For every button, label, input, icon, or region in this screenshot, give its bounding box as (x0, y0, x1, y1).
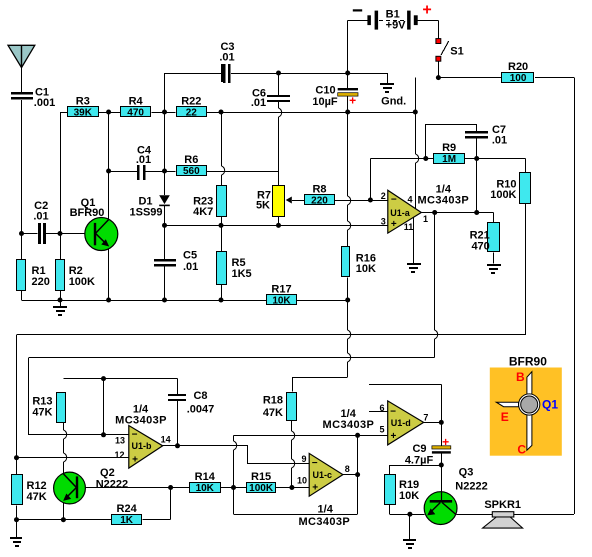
svg-text:7: 7 (423, 413, 428, 423)
svg-text:+9V: +9V (386, 20, 407, 32)
svg-text:BFR90: BFR90 (70, 207, 105, 219)
svg-text:100: 100 (510, 73, 527, 84)
svg-text:U1-c: U1-c (313, 470, 333, 480)
svg-text:39K: 39K (74, 107, 93, 118)
svg-text:R14: R14 (195, 471, 216, 483)
svg-text:11: 11 (404, 222, 414, 232)
svg-text:13: 13 (115, 436, 125, 446)
svg-text:10µF: 10µF (312, 96, 338, 108)
svg-text:R15: R15 (251, 471, 271, 483)
svg-text:+: + (442, 435, 449, 449)
svg-text:10K: 10K (356, 263, 376, 275)
svg-text:R20: R20 (508, 61, 528, 73)
svg-text:220: 220 (311, 195, 328, 206)
svg-text:+: + (312, 483, 318, 494)
svg-text:4.7µF: 4.7µF (405, 455, 434, 467)
svg-text:R4: R4 (129, 96, 144, 108)
svg-text:Q2: Q2 (100, 467, 115, 479)
svg-text:.01: .01 (492, 135, 507, 147)
svg-text:Q1: Q1 (542, 398, 558, 412)
svg-text:+: + (391, 219, 397, 230)
svg-text:14: 14 (161, 435, 171, 445)
svg-text:N2222: N2222 (96, 479, 128, 491)
svg-text:470: 470 (127, 107, 144, 118)
svg-text:1M: 1M (442, 154, 456, 165)
svg-text:4K7: 4K7 (193, 206, 213, 218)
svg-text:N2222: N2222 (455, 481, 487, 493)
svg-text:.001: .001 (34, 97, 55, 109)
svg-text:MC3403P: MC3403P (115, 414, 167, 426)
svg-text:1K5: 1K5 (232, 268, 252, 280)
svg-text:+: + (390, 431, 396, 442)
svg-text:Q3: Q3 (459, 467, 474, 479)
svg-text:100K: 100K (69, 276, 95, 288)
svg-text:47K: 47K (32, 407, 52, 419)
svg-text:.01: .01 (251, 97, 266, 109)
svg-text:BFR90: BFR90 (509, 354, 547, 368)
svg-text:R6: R6 (184, 154, 198, 166)
svg-text:1/4: 1/4 (318, 504, 334, 516)
svg-text:MC3403P: MC3403P (298, 516, 350, 528)
svg-text:100K: 100K (490, 189, 516, 201)
svg-text:C8: C8 (193, 390, 207, 402)
svg-text:−: − (132, 429, 138, 440)
svg-text:.01: .01 (33, 210, 48, 222)
svg-text:470: 470 (471, 240, 489, 252)
svg-text:C: C (517, 442, 526, 456)
svg-text:E: E (501, 410, 509, 424)
svg-text:5K: 5K (256, 200, 270, 212)
svg-text:C10: C10 (315, 85, 335, 97)
svg-text:220: 220 (32, 276, 50, 288)
svg-text:C5: C5 (183, 250, 197, 262)
svg-text:3: 3 (381, 217, 386, 227)
svg-text:47K: 47K (263, 407, 283, 419)
svg-text:12: 12 (114, 450, 124, 460)
svg-text:−: − (391, 195, 397, 206)
svg-text:47K: 47K (27, 491, 47, 503)
svg-text:1: 1 (423, 214, 428, 224)
svg-text:R8: R8 (312, 184, 326, 196)
svg-text:R9: R9 (442, 142, 456, 154)
svg-text:100K: 100K (249, 483, 274, 494)
svg-text:+: + (349, 94, 356, 108)
svg-text:10: 10 (297, 476, 307, 486)
svg-text:.01: .01 (219, 52, 234, 64)
svg-text:U1-d: U1-d (391, 418, 411, 428)
svg-text:R18: R18 (263, 395, 283, 407)
svg-text:R22: R22 (181, 96, 201, 108)
svg-text:10K: 10K (196, 483, 215, 494)
svg-text:SPKR1: SPKR1 (484, 499, 521, 511)
svg-text:C9: C9 (412, 443, 426, 455)
svg-text:8: 8 (345, 464, 350, 474)
svg-text:Gnd.: Gnd. (381, 96, 406, 108)
svg-text:6: 6 (379, 403, 384, 413)
svg-text:5: 5 (379, 425, 384, 435)
svg-text:.0047: .0047 (187, 404, 215, 416)
svg-text:U1-b: U1-b (132, 441, 153, 451)
svg-text:560: 560 (183, 166, 200, 177)
svg-text:1K: 1K (120, 515, 134, 526)
svg-text:B: B (516, 370, 525, 384)
svg-text:MC3403P: MC3403P (417, 194, 469, 206)
svg-text:22: 22 (186, 107, 198, 118)
svg-text:R24: R24 (117, 503, 138, 515)
svg-text:+: + (422, 2, 431, 19)
svg-text:−: − (390, 407, 396, 418)
svg-text:.01: .01 (136, 154, 151, 166)
svg-text:+: + (132, 454, 138, 465)
svg-text:R17: R17 (271, 284, 291, 296)
svg-text:1SS99: 1SS99 (129, 207, 162, 219)
svg-text:4: 4 (407, 195, 412, 205)
svg-text:10K: 10K (272, 295, 291, 306)
svg-text:MC3403P: MC3403P (323, 419, 375, 431)
svg-text:10K: 10K (399, 490, 419, 502)
svg-text:.01: .01 (183, 261, 198, 273)
svg-text:2: 2 (381, 191, 386, 201)
svg-text:U1-a: U1-a (390, 208, 411, 218)
svg-text:R3: R3 (76, 96, 90, 108)
svg-text:9: 9 (301, 454, 306, 464)
svg-text:−: − (312, 458, 318, 469)
svg-text:S1: S1 (450, 46, 463, 58)
